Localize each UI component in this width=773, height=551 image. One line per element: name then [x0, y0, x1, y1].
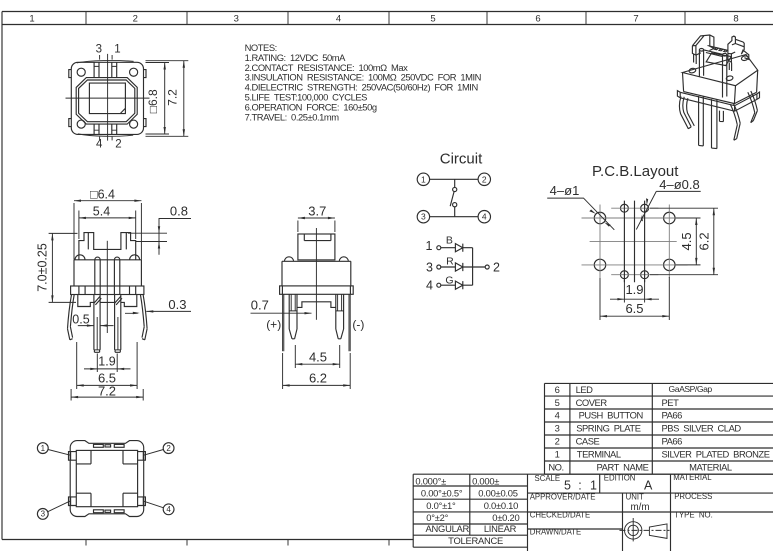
svg-text:4–ø1: 4–ø1	[550, 183, 580, 198]
svg-text:1: 1	[590, 479, 597, 493]
svg-text:7.2: 7.2	[98, 384, 116, 399]
svg-text:A: A	[644, 479, 653, 493]
svg-text:APPROVER/DATE: APPROVER/DATE	[530, 492, 596, 501]
svg-text:6.2: 6.2	[696, 232, 711, 250]
svg-text:(+): (+)	[266, 318, 281, 332]
svg-text:4: 4	[426, 278, 433, 292]
svg-text:6.5: 6.5	[625, 301, 643, 316]
svg-text:1: 1	[555, 449, 560, 460]
svg-text:3.7: 3.7	[308, 203, 326, 218]
svg-text:SILVER PLATED BRONZE: SILVER PLATED BRONZE	[662, 449, 770, 460]
svg-text:4.5: 4.5	[679, 232, 694, 250]
svg-text:1: 1	[41, 444, 46, 453]
svg-text:LINEAR: LINEAR	[484, 523, 517, 534]
svg-text:4: 4	[336, 14, 341, 25]
svg-text:3: 3	[41, 510, 46, 519]
svg-text:0.00±0.05: 0.00±0.05	[478, 487, 517, 498]
svg-text:□6.4: □6.4	[90, 187, 115, 201]
svg-text:PBS SILVER CLAD: PBS SILVER CLAD	[662, 423, 742, 434]
svg-text:7.0±0.25: 7.0±0.25	[35, 243, 49, 292]
svg-text:6.2: 6.2	[309, 371, 327, 386]
svg-text:□6.8: □6.8	[146, 89, 160, 113]
svg-text:0.8: 0.8	[170, 203, 188, 218]
svg-text:4–ø0.8: 4–ø0.8	[659, 177, 699, 192]
svg-text:ANGULAR: ANGULAR	[426, 523, 470, 534]
svg-text:3: 3	[96, 44, 102, 56]
svg-text:PA66: PA66	[662, 436, 683, 447]
svg-text:MATERIAL: MATERIAL	[673, 473, 712, 482]
svg-text:2: 2	[482, 174, 487, 184]
svg-text:2: 2	[133, 14, 138, 25]
svg-text:5: 5	[430, 14, 435, 25]
svg-text:0.7: 0.7	[251, 297, 269, 312]
svg-text::: :	[578, 479, 581, 493]
svg-text:6: 6	[535, 14, 540, 25]
svg-text:CHECKED/DATE: CHECKED/DATE	[530, 510, 591, 519]
svg-text:CASE: CASE	[576, 436, 600, 447]
svg-text:MATERIAL: MATERIAL	[689, 462, 732, 473]
svg-text:7: 7	[633, 14, 638, 25]
svg-text:4.5: 4.5	[309, 349, 327, 364]
svg-text:LED: LED	[576, 384, 594, 395]
svg-text:TYPE NO.: TYPE NO.	[674, 510, 713, 519]
svg-text:DRAWN/DATE: DRAWN/DATE	[530, 527, 582, 536]
svg-text:3: 3	[234, 14, 239, 25]
svg-text:0.0°±1°: 0.0°±1°	[426, 500, 456, 511]
svg-text:1: 1	[114, 44, 120, 56]
svg-text:PART NAME: PART NAME	[597, 462, 649, 473]
svg-text:3: 3	[555, 423, 560, 434]
svg-text:3: 3	[426, 260, 433, 274]
svg-text:TERMINAL: TERMINAL	[577, 449, 621, 460]
svg-text:4: 4	[166, 505, 171, 514]
svg-text:0.000°±: 0.000°±	[415, 476, 446, 487]
svg-text:5.4: 5.4	[93, 205, 110, 219]
svg-text:5: 5	[555, 397, 560, 408]
svg-text:TOLERANCE: TOLERANCE	[448, 535, 503, 546]
svg-text:0.00°±0.5°: 0.00°±0.5°	[421, 487, 463, 498]
svg-text:G: G	[445, 274, 453, 286]
svg-text:2: 2	[493, 261, 500, 275]
svg-text:2: 2	[555, 436, 560, 447]
svg-text:0.3: 0.3	[168, 297, 186, 312]
svg-text:(-): (-)	[352, 318, 364, 332]
svg-text:COVER: COVER	[576, 397, 608, 408]
svg-text:Circuit: Circuit	[440, 150, 483, 167]
svg-text:1: 1	[421, 174, 426, 184]
svg-text:SPRING PLATE: SPRING PLATE	[576, 423, 641, 434]
svg-text:2: 2	[166, 444, 171, 453]
svg-text:1.9: 1.9	[625, 282, 643, 297]
svg-text:B: B	[446, 234, 453, 246]
svg-text:GaASP/Gap: GaASP/Gap	[669, 384, 713, 394]
svg-text:PET: PET	[662, 397, 680, 408]
svg-text:0.0±0.10: 0.0±0.10	[484, 500, 518, 511]
svg-text:8: 8	[733, 14, 738, 25]
svg-text:5: 5	[564, 479, 571, 493]
svg-text:R: R	[446, 256, 454, 268]
svg-text:SCALE: SCALE	[535, 474, 561, 483]
svg-text:PA66: PA66	[662, 410, 683, 421]
svg-text:PROCESS: PROCESS	[674, 492, 712, 501]
svg-text:EDITION: EDITION	[604, 474, 636, 483]
svg-text:4: 4	[482, 212, 487, 222]
svg-text:m/m: m/m	[630, 502, 649, 513]
svg-text:0±0.20: 0±0.20	[492, 512, 519, 523]
svg-text:4: 4	[96, 139, 103, 151]
svg-text:0.000±: 0.000±	[472, 476, 499, 487]
svg-text:UNIT: UNIT	[626, 492, 644, 501]
svg-text:1: 1	[29, 14, 34, 25]
svg-text:6: 6	[555, 384, 560, 395]
svg-text:2: 2	[115, 139, 121, 151]
svg-text:4: 4	[555, 410, 560, 421]
svg-text:PUSH BUTTON: PUSH BUTTON	[579, 410, 643, 421]
svg-text:7.TRAVEL: 0.25±0.1mm: 7.TRAVEL: 0.25±0.1mm	[245, 112, 340, 123]
svg-text:3: 3	[421, 212, 426, 222]
svg-text:1: 1	[426, 239, 433, 253]
svg-text:7.2: 7.2	[165, 89, 179, 106]
svg-text:NO.: NO.	[548, 462, 563, 473]
svg-text:0°±2°: 0°±2°	[426, 512, 448, 523]
svg-text:0.5: 0.5	[72, 312, 89, 326]
svg-text:1.9: 1.9	[98, 355, 115, 369]
